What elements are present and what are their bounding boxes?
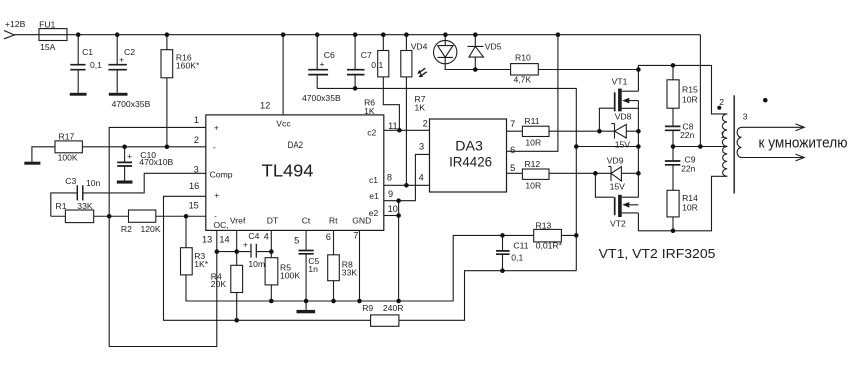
svg-text:Comp: Comp: [210, 170, 233, 180]
svg-text:C11: C11: [513, 241, 528, 251]
svg-text:C2: C2: [124, 47, 135, 57]
svg-text:R1: R1: [56, 201, 67, 211]
svg-text:+: +: [127, 151, 132, 161]
svg-text:DT: DT: [267, 215, 279, 225]
svg-text:2: 2: [194, 135, 199, 145]
svg-text:+: +: [214, 190, 219, 200]
svg-text:R9: R9: [362, 303, 373, 313]
svg-text:C6: C6: [324, 50, 335, 60]
svg-text:15A: 15A: [40, 42, 56, 52]
svg-text:VT2: VT2: [610, 218, 626, 228]
svg-text:e2: e2: [369, 208, 379, 218]
svg-text:9: 9: [388, 189, 393, 199]
svg-text:e1: e1: [369, 191, 379, 201]
svg-text:1: 1: [194, 115, 199, 125]
svg-text:Vcc: Vcc: [276, 118, 291, 128]
svg-text:6: 6: [326, 232, 331, 242]
svg-text:10R: 10R: [525, 138, 541, 148]
svg-text:12: 12: [260, 100, 270, 110]
svg-text:4: 4: [264, 232, 269, 242]
svg-text:0,01R*: 0,01R*: [536, 241, 563, 251]
svg-text:13: 13: [202, 234, 212, 244]
svg-text:+: +: [243, 240, 248, 250]
svg-text:0,1: 0,1: [90, 60, 102, 70]
svg-text:2: 2: [719, 97, 724, 107]
svg-text:15: 15: [189, 201, 199, 211]
svg-text:5: 5: [510, 163, 515, 173]
svg-text:VD9: VD9: [607, 155, 624, 165]
svg-text:7: 7: [510, 119, 515, 129]
svg-text:Rt: Rt: [329, 215, 338, 225]
svg-text:C4: C4: [248, 231, 259, 241]
svg-text:33K: 33K: [342, 268, 358, 278]
svg-text:7: 7: [353, 230, 358, 240]
svg-text:10m: 10m: [248, 259, 265, 269]
svg-text:5: 5: [294, 235, 299, 245]
svg-text:FU1: FU1: [39, 20, 55, 30]
svg-text:10: 10: [388, 204, 398, 214]
svg-text:120K: 120K: [141, 224, 161, 234]
svg-text:TL494: TL494: [262, 160, 314, 180]
svg-text:R11: R11: [524, 116, 539, 126]
svg-text:3: 3: [743, 111, 748, 121]
svg-text:VD8: VD8: [615, 112, 632, 122]
svg-text:14: 14: [219, 234, 229, 244]
svg-text:470x10В: 470x10В: [139, 157, 173, 167]
svg-text:10n: 10n: [86, 178, 101, 188]
svg-text:Vref: Vref: [230, 215, 246, 225]
svg-text:R17: R17: [59, 131, 75, 141]
svg-text:6: 6: [510, 145, 515, 155]
svg-text:VD5: VD5: [485, 41, 502, 51]
svg-text:-: -: [213, 142, 216, 152]
svg-text:16: 16: [189, 181, 199, 191]
svg-text:4700x35В: 4700x35В: [112, 99, 151, 109]
svg-text:4700x35В: 4700x35В: [302, 93, 341, 103]
svg-text:1K: 1K: [415, 103, 426, 113]
svg-text:+: +: [119, 55, 124, 65]
svg-text:+: +: [320, 59, 325, 69]
svg-text:4: 4: [419, 172, 424, 182]
svg-text:1K: 1K: [364, 106, 375, 116]
svg-text:R2: R2: [121, 224, 132, 234]
svg-text:100K: 100K: [58, 153, 78, 163]
svg-text:VT1: VT1: [612, 77, 628, 87]
svg-text:33K: 33K: [77, 201, 93, 211]
svg-text:22n: 22n: [681, 164, 696, 174]
svg-text:11: 11: [388, 121, 398, 131]
svg-text:15V: 15V: [615, 140, 631, 150]
svg-text:10R: 10R: [525, 180, 541, 190]
svg-text:+12В: +12В: [5, 19, 26, 29]
svg-text:1K*: 1K*: [194, 259, 209, 269]
svg-text:C1: C1: [82, 47, 93, 57]
svg-text:3: 3: [194, 164, 199, 174]
svg-text:R13: R13: [536, 220, 552, 230]
svg-text:4,7K: 4,7K: [514, 75, 532, 85]
svg-text:Ct: Ct: [302, 215, 311, 225]
svg-text:10R: 10R: [682, 202, 698, 212]
svg-text:22n: 22n: [680, 130, 695, 140]
svg-text:0,1: 0,1: [511, 253, 523, 263]
svg-text:1: 1: [720, 130, 725, 140]
svg-text:160K*: 160K*: [176, 61, 200, 71]
svg-text:240R: 240R: [383, 303, 404, 313]
svg-text:1n: 1n: [308, 264, 318, 274]
svg-text:IR4426: IR4426: [449, 153, 492, 169]
svg-text:VT1, VT2 IRF3205: VT1, VT2 IRF3205: [599, 246, 716, 261]
svg-text:+: +: [214, 122, 219, 132]
svg-text:DA2: DA2: [288, 140, 304, 151]
svg-text:15V: 15V: [610, 181, 626, 191]
svg-text:10R: 10R: [682, 95, 698, 105]
svg-text:OC,: OC,: [214, 220, 229, 230]
svg-text:8: 8: [387, 172, 392, 182]
svg-text:100K: 100K: [280, 271, 300, 281]
svg-text:c2: c2: [367, 128, 376, 138]
svg-text:3: 3: [419, 141, 424, 151]
svg-text:C7: C7: [361, 50, 372, 60]
svg-text:к умножителю: к умножителю: [759, 135, 848, 151]
svg-text:DA3: DA3: [455, 137, 483, 153]
svg-text:R15: R15: [682, 85, 698, 95]
svg-text:R12: R12: [524, 159, 540, 169]
svg-text:R10: R10: [515, 53, 531, 63]
svg-text:c1: c1: [369, 175, 378, 185]
svg-text:2: 2: [423, 118, 428, 128]
svg-text:20K: 20K: [211, 279, 227, 289]
svg-text:VD4: VD4: [411, 41, 428, 51]
svg-text:C3: C3: [65, 176, 76, 186]
svg-text:0,1: 0,1: [371, 60, 383, 70]
